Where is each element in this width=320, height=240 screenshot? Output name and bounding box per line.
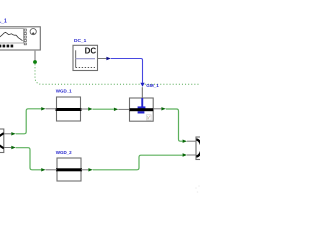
DC source DC_1	[73, 45, 98, 70]
DC source DC_1 label	[74, 38, 87, 44]
svg-text:GM_1: GM_1	[146, 83, 159, 88]
resistor WGD_1 label	[56, 88, 72, 93]
wire scope input stub	[34, 50, 36, 61]
scope SC_1 label	[0, 19, 7, 25]
svg-text:L_1: L_1	[0, 19, 7, 25]
wire WGD_2 to mux in2	[81, 153, 196, 171]
wire WGD_1 to switch	[81, 107, 130, 111]
wire gate signal blue	[106, 57, 144, 87]
svg-text:DC_1: DC_1	[74, 38, 87, 44]
resistor WGD_2 label	[56, 150, 72, 155]
wire demux out1 to WGD_1	[4, 107, 57, 135]
resistor WGD_2	[56, 158, 82, 181]
demux DM_1	[0, 129, 4, 153]
scope SC_1	[0, 27, 40, 50]
svg-text:DC: DC	[85, 47, 97, 56]
wire gate stub	[141, 87, 143, 98]
resistor WGD_1	[56, 97, 82, 121]
wire demux out2 to WGD_2	[4, 146, 57, 172]
svg-text:WGD_2: WGD_2	[56, 150, 72, 155]
watermark dots bottom right	[195, 185, 200, 193]
node junction dot	[33, 60, 37, 64]
wire DC_1 output stub	[98, 58, 107, 60]
mux MX_1	[196, 137, 210, 160]
switch GM_1	[130, 98, 154, 121]
wire switch to mux in1	[153, 107, 196, 143]
gate signal GM_1 label	[146, 83, 159, 88]
wire dotted probe signal	[35, 64, 200, 84]
svg-text:WGD_1: WGD_1	[56, 88, 72, 93]
